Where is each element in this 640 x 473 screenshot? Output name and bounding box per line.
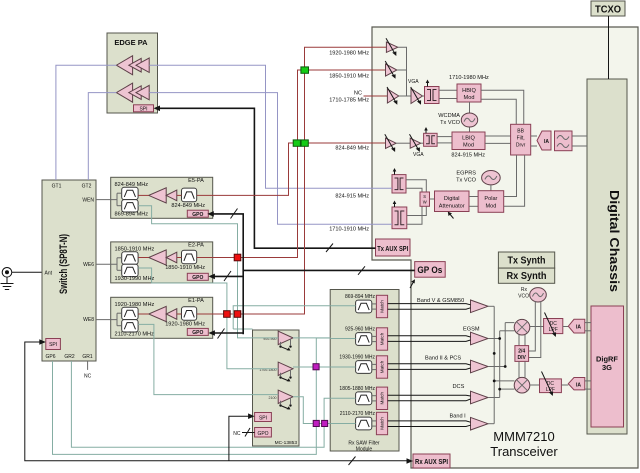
wire IA2 to DigRF [585,380,591,382]
EDGE amp row2 [116,83,149,102]
wire BB to IA3 [531,136,537,146]
junction red sq1 [234,254,241,261]
wire LBIQ to BB filt [485,136,511,143]
svg-text:GT1: GT1 [52,184,62,190]
wire sine box to chassis [572,136,587,146]
svg-text:EGSM: EGSM [463,327,480,333]
wire amp chain [138,257,181,259]
svg-text:W: W [423,200,427,205]
wire balun B4 to LBIQ [437,137,452,143]
wire switch SPI control [25,339,413,464]
svg-text:E2-PA: E2-PA [188,242,204,248]
svg-text:E5-PA: E5-PA [188,178,204,184]
GPO block [187,273,208,281]
wire NC 1710 input row [364,95,388,97]
junction dot C [493,380,496,383]
svg-text:Match: Match [379,332,384,345]
digital chassis block [587,79,627,434]
svg-text:SPI: SPI [259,416,267,422]
svg-text:NC: NC [233,431,241,437]
wire 1850-1910 input row [372,69,386,71]
input filter [182,250,197,264]
wire match MN2 to band amp [388,336,471,342]
input filter [182,188,197,202]
match network MN2 [376,328,387,350]
label Rx VCO [518,287,529,300]
switch SPI block [46,339,61,350]
svg-text:SPI: SPI [139,106,147,112]
balun B1 [392,168,406,193]
svg-text:S: S [423,194,426,199]
svg-text:GR2: GR2 [64,354,75,360]
IA2 amp [568,378,585,390]
wire filter FL4 to match [372,396,377,401]
GPO block [187,210,208,218]
junction green sq3 [301,140,308,146]
wire SAW row5 feed inside [330,423,355,425]
wire mixer M1 to DC LPF1 [530,326,544,328]
wire HBIQ to BB filt [481,90,524,124]
BB Filt Drvr block [511,124,531,155]
junction dot E [493,352,496,355]
label EGPRS Tx VCO [456,171,477,184]
wire Rx VCO to mixer M1 [529,301,536,351]
band amp EGSM [471,332,489,345]
svg-text:Switch (SP8T-N): Switch (SP8T-N) [58,234,70,294]
E2-PA power amp block [111,242,213,283]
mixer M1 [514,319,530,335]
mixer M2 [514,377,530,393]
wire SAW row2 feed inside [330,338,355,340]
wire teal row1 branch stub [233,328,252,330]
wire red E2 Tx to 1850-1910 input [197,70,372,258]
junction green sq1 [301,67,309,73]
svg-text:GP Os: GP Os [417,265,442,275]
E5-PA power amp block [111,177,213,218]
wire amp4 to balun B3 [423,95,425,97]
EDGE PA block [107,33,158,113]
wire teal E5 Rx to SAW row1 [138,206,278,338]
svg-text:TCXO: TCXO [595,5,621,16]
band amp Band I [471,417,489,430]
svg-text:824-849 MHz: 824-849 MHz [335,146,369,152]
band amp Band II [471,360,489,373]
svg-text:GR1: GR1 [82,354,93,360]
svg-text:EDGE PA: EDGE PA [114,38,148,47]
wire mixer M1 to divider [518,335,520,346]
svg-text:824-915 MHz: 824-915 MHz [335,194,369,200]
svg-text:WEN: WEN [82,198,94,204]
slash on Tx AUX SPI wire [326,244,333,253]
wire blue EDGE row1 to balun B1 [149,65,392,188]
PA amp pair [149,306,177,321]
wire IA1 to DigRF [585,322,591,324]
VGA amp A6 [410,134,421,152]
SAW filter FL3 [356,361,372,374]
svg-text:Drvr: Drvr [516,143,526,149]
LNA amp L2 [259,362,293,381]
svg-text:869-894 MHz: 869-894 MHz [345,294,376,300]
svg-text:HBIQ: HBIQ [462,88,476,94]
duplexer filter top [122,187,138,199]
wire filter FL2 to match [372,336,377,341]
svg-text:1920-1980 MHz: 1920-1980 MHz [165,322,205,328]
junction green sq2 [293,140,300,146]
svg-text:824-915 MHz: 824-915 MHz [451,153,485,159]
wire blue EDGE row2 to balun B2 [149,93,392,225]
match network MN5 [376,412,387,434]
svg-text:1710-1980 MHz: 1710-1980 MHz [449,75,489,81]
svg-text:Tx Synth: Tx Synth [508,256,546,267]
wire duplexer common [96,313,122,326]
wire antenna to switch [12,271,42,273]
Rx SAW filter module [330,290,399,452]
wire match MN4 to band amp [388,395,471,401]
wire teal LNA L2 out to SAW row3 [293,366,330,368]
duplexer filter top [122,307,138,319]
VGA amp A3 [387,87,399,105]
IA1 amp [568,319,585,333]
divider 2/4 DIV [515,346,529,362]
wire EDGE SPI control [154,106,376,249]
wire amp chain [138,194,181,196]
wire filter FL1 to match [372,304,377,309]
wire mixer M1 input a [505,322,514,324]
SW switch block [420,192,430,206]
svg-text:GP6: GP6 [45,354,55,360]
EDGE amp row1 [116,56,149,75]
svg-text:GPO: GPO [192,275,203,281]
wire black bus to GP Os [243,269,415,271]
wire SW to digital attenuator [430,198,435,200]
antenna ANT [1,268,14,290]
svg-text:Rx AUX SPI: Rx AUX SPI [415,457,448,466]
wire amp chain [138,313,181,315]
duplexer filter bottom [122,200,138,212]
arrow through DC LPF2 [542,372,554,397]
svg-text:1930-1990 MHz: 1930-1990 MHz [115,276,155,282]
svg-text:VGA: VGA [408,79,419,85]
GP Os block [415,262,446,278]
duplexer filter bottom [122,264,138,276]
wire attenuator to polar mod [469,197,478,207]
SAW filter FL1 [356,300,372,313]
svg-text:NC: NC [354,91,362,97]
MMM7210 transceiver outline U100 [372,27,638,468]
wire blue GT2 to EDGE row2 [88,93,116,180]
svg-text:MMM7210: MMM7210 [493,429,554,444]
svg-text:Filt,: Filt, [517,136,525,142]
Rx VCO oscillator [530,288,547,302]
VGA amp A5 [385,134,396,152]
svg-text:1850-1910 MHz: 1850-1910 MHz [165,265,205,271]
PA amp pair [149,188,177,203]
svg-text:Match: Match [379,392,384,405]
svg-text:Mod: Mod [485,204,496,210]
svg-text:LBIQ: LBIQ [462,136,475,142]
svg-text:Rx: Rx [521,287,528,293]
E1-PA power amp block [111,297,213,338]
Rx AUX SPI block [413,454,450,468]
wire DCS amp out to bus [488,397,500,399]
IA3 amp [537,131,551,150]
DC LPF2 block [540,379,562,393]
svg-text:Module: Module [356,447,373,453]
svg-text:1805-1880 MHz: 1805-1880 MHz [339,386,375,392]
Polar Mod block [478,191,504,213]
junction red sq3 [234,311,241,318]
svg-text:DIV: DIV [518,355,527,361]
svg-text:NC: NC [84,374,92,380]
wire Rx VCO to divider b [529,301,541,358]
svg-text:DCS: DCS [453,384,465,390]
SAW filter FL4 [356,392,372,405]
svg-text:Digital Chassis: Digital Chassis [607,190,622,292]
PA amp pair [149,250,177,265]
LBIQ Mod block [452,132,485,150]
DigRF 3G block [591,306,624,427]
VGA amp A1 [386,38,398,56]
duplexer filter bottom [122,320,138,332]
svg-text:Transceiver: Transceiver [490,444,558,459]
LNA amp L3 [269,390,294,409]
balun B2 [392,201,407,229]
SAW filter FL2 [356,333,372,346]
wire teal E1 Rx to LNA L3 [138,324,278,394]
wire match MN1 to band amp [388,304,471,310]
wire duplexer common [96,193,122,206]
EGPRS Tx VCO oscillator [482,171,501,191]
svg-text:Tx VCO: Tx VCO [456,178,477,184]
Rx Synth block [498,268,554,283]
svg-text:EGPRS: EGPRS [456,171,476,177]
svg-text:E1-PA: E1-PA [188,298,204,304]
svg-text:WCDMA: WCDMA [438,113,460,119]
junction purple sq2 [313,420,319,426]
input filter [182,307,197,321]
wire amp6 to balun B4 [421,142,424,144]
wire duplexer common [96,258,122,271]
wire black E1 GPO to bus [208,329,243,339]
svg-text:1920-1980 MHz: 1920-1980 MHz [329,51,369,57]
wire bus vertical V2 [499,331,501,398]
wire teal E2 Rx to LNA L2 [138,268,278,369]
Tx Synth block [498,252,554,268]
wire mixer M2 input b [500,388,515,390]
svg-text:VCO: VCO [518,294,529,300]
HBIQ Mod block [457,84,481,102]
svg-text:Band I: Band I [450,414,467,420]
balun B4 [424,127,438,146]
wire blue GT1 to EDGE row1 [56,65,117,180]
svg-text:IA: IA [576,325,581,331]
svg-text:BB: BB [517,129,524,135]
wire DC LPF1 to IA1 [563,326,569,328]
antenna switch SP8T [42,180,96,361]
TCXO oscillator X1 [591,1,625,16]
match network MN4 [376,387,387,409]
svg-text:2110-2170 MHz: 2110-2170 MHz [340,411,376,417]
svg-text:1710-1910 MHz: 1710-1910 MHz [329,227,369,233]
svg-text:3G: 3G [602,363,612,372]
svg-text:SPI: SPI [49,342,57,348]
balun B3 [425,80,440,104]
wire divider to mixer M2 [518,361,520,378]
slash on bottom SPI bus [349,457,356,466]
match network MN1 [376,295,387,317]
arrow through DC LPF1 [545,313,557,338]
svg-text:1930-1990 MHz: 1930-1990 MHz [339,355,375,361]
wire teal LNA L1 out to SAW row2 [293,337,330,339]
wire balun B3 to HBIQ [439,90,457,98]
svg-text:Tx VCO: Tx VCO [440,120,461,126]
wire SAW row1 feed inside [330,305,355,307]
Digital Attenuator block [435,191,470,212]
wire red E1 Tx to 1920-1980 input [197,47,372,314]
pointer arrow at attenuator [448,212,454,219]
svg-text:Attenuator: Attenuator [439,204,465,210]
svg-text:Polar: Polar [484,196,497,202]
wire Band II amp out to bus [488,366,505,368]
wire GR1 NC stub [84,361,92,380]
wire black MC SPI control [229,413,255,460]
SAW filter FL5 [356,417,372,430]
wire SAW row3 feed inside [330,366,355,368]
wire mixer M2 to DC LPF2 [530,384,540,386]
wire bus vertical V1 [493,306,495,423]
wire mixer M2 input a [494,380,514,382]
svg-text:Mod: Mod [464,95,475,101]
svg-text:925-960 MHz: 925-960 MHz [345,327,376,333]
svg-text:Ant: Ant [45,271,53,277]
DC LPF1 block [544,319,563,334]
wire polar mod to BB filt [504,155,525,206]
VGA amp A2 [385,61,397,79]
wire mixer M1 input b [500,330,515,332]
junction purple sq1 [313,364,319,370]
svg-text:Match: Match [379,300,384,313]
wire amp5 to amp6 [396,142,410,144]
GPO block [187,328,208,336]
svg-text:Mod: Mod [463,143,474,149]
svg-text:2100: 2100 [269,396,277,400]
pointer arrow at GP Os [410,279,415,288]
VGA amp A4 [411,87,423,105]
band amp Band V [471,300,489,313]
svg-text:GPO: GPO [192,212,203,218]
EDGE SPI block [134,105,154,113]
svg-text:1850-1910 MHz: 1850-1910 MHz [329,74,369,80]
wire teal branch to SAW row1 [233,306,330,329]
svg-text:2110-2170 MHz: 2110-2170 MHz [115,332,155,338]
baseband filter F-sine [555,131,573,151]
svg-text:MC-13853: MC-13853 [275,440,298,446]
wire balun B2 to SW [407,206,427,215]
wire amp2 join [397,69,407,71]
wire teal GR2 to SAW row4 [71,361,330,447]
svg-text:Match: Match [379,417,384,430]
wire EGSM amp out to bus [488,338,500,340]
wire amp join bus [398,47,411,96]
svg-text:Tx AUX SPI: Tx AUX SPI [377,244,408,253]
wire SAW row4 feed inside [330,397,355,399]
svg-text:869-894 MHz: 869-894 MHz [115,212,149,218]
LNA amp L1 [263,331,293,350]
wire match MN5 to band amp [388,421,471,427]
band amp DCS [471,391,489,404]
svg-text:VGA: VGA [413,152,424,158]
match network MN3 [376,356,387,378]
duplexer filter top [122,252,138,264]
junction dot A [498,337,501,340]
svg-text:Band II & PCS: Band II & PCS [425,356,461,362]
wire teal LNA L3 out to SAW row5 [293,397,330,424]
WCDMA Tx VCO oscillator [461,102,477,132]
slash on GP Os wire [358,266,365,275]
wire balun B1 to SW [406,180,426,192]
wire match MN3 to band amp [388,364,471,370]
svg-text:IA: IA [544,139,549,145]
svg-text:824-849 MHz: 824-849 MHz [171,203,205,209]
junction dot D [498,388,501,391]
wire black E2 GPO join [208,271,243,281]
wire red E5 Tx to 824-849 input [197,143,372,195]
wire teal GP6 to SAW row2 [53,338,331,454]
svg-text:Match: Match [379,360,384,373]
label WCDMA Tx VCO [438,113,460,126]
svg-text:2/4: 2/4 [518,349,525,355]
MC GPO block [255,428,272,438]
wire red NC stub [365,95,372,97]
wire TCXO to chassis [608,16,610,79]
svg-text:IA: IA [576,382,581,388]
wire band V amp out to bus [488,305,494,307]
wire amp3 join [399,95,407,97]
wire black E5 GPO bus to GP Os [207,209,243,335]
wire balun B1 out2 [406,188,422,192]
MC SPI block [255,413,272,422]
label NC at MC GPO [233,428,254,437]
wire 824-849 input row [372,142,386,144]
label Rx SAW Filter Module [348,441,380,453]
MC-13853 LNA module [253,330,300,446]
junction dot B [504,365,507,368]
junction red sq2 [224,311,231,318]
junction purple sq3 [322,420,328,426]
wire bus vertical V3 [504,323,506,367]
wire filter FL5 to match [372,421,377,426]
svg-text:WE8: WE8 [83,317,94,323]
wire DC LPF2 to IA2 [561,384,568,386]
svg-text:GPO: GPO [192,330,203,336]
wire filter FL3 to match [372,364,377,369]
svg-text:WE6: WE6 [83,262,94,268]
wire Band I amp out to bus [488,423,494,425]
svg-text:Rx Synth: Rx Synth [507,271,547,282]
svg-text:GT2: GT2 [82,184,92,190]
wire balun B2 out2 [407,206,422,224]
label MMM7210 Transceiver [490,429,558,459]
svg-text:GPO: GPO [257,431,268,437]
Tx AUX SPI block [376,239,411,256]
svg-text:Digital: Digital [444,196,460,202]
wire 1920-1980 input row [372,46,386,48]
svg-text:1710-1785 MHz: 1710-1785 MHz [329,98,369,104]
